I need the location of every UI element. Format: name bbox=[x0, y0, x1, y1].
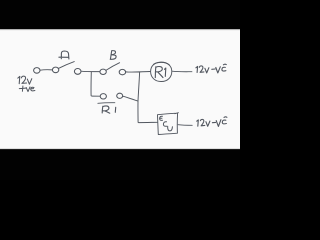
wire coil to -ve label bbox=[172, 70, 192, 73]
wire branch down to ECU bbox=[138, 72, 157, 122]
wire switch A to switch B bbox=[81, 70, 100, 72]
label B bbox=[110, 51, 116, 60]
label A bbox=[59, 51, 69, 59]
label 12v -ve (bottom right) bbox=[197, 117, 227, 127]
label ECU inside box bbox=[160, 116, 173, 131]
relay contact R1 bbox=[100, 94, 106, 99]
ECU box bbox=[158, 113, 179, 135]
supply terminal (12V +ve) bbox=[34, 68, 40, 74]
label R1 inside coil bbox=[155, 67, 163, 78]
relay coil R1 bbox=[151, 62, 172, 81]
wire switch B to relay coil bbox=[126, 71, 150, 74]
wire branch down to relay contact bbox=[91, 72, 100, 96]
label +ve bbox=[19, 86, 35, 92]
label 12v bbox=[18, 76, 32, 84]
label 12v -ve (top right) bbox=[196, 64, 226, 73]
wire ECU to -ve label bbox=[178, 124, 192, 127]
wire terminal to switch A bbox=[40, 69, 52, 71]
label R1 (under contact) bbox=[98, 102, 115, 105]
switch A bbox=[52, 67, 58, 73]
switch B bbox=[100, 69, 106, 74]
wire relay contact to ECU branch bbox=[123, 96, 138, 101]
